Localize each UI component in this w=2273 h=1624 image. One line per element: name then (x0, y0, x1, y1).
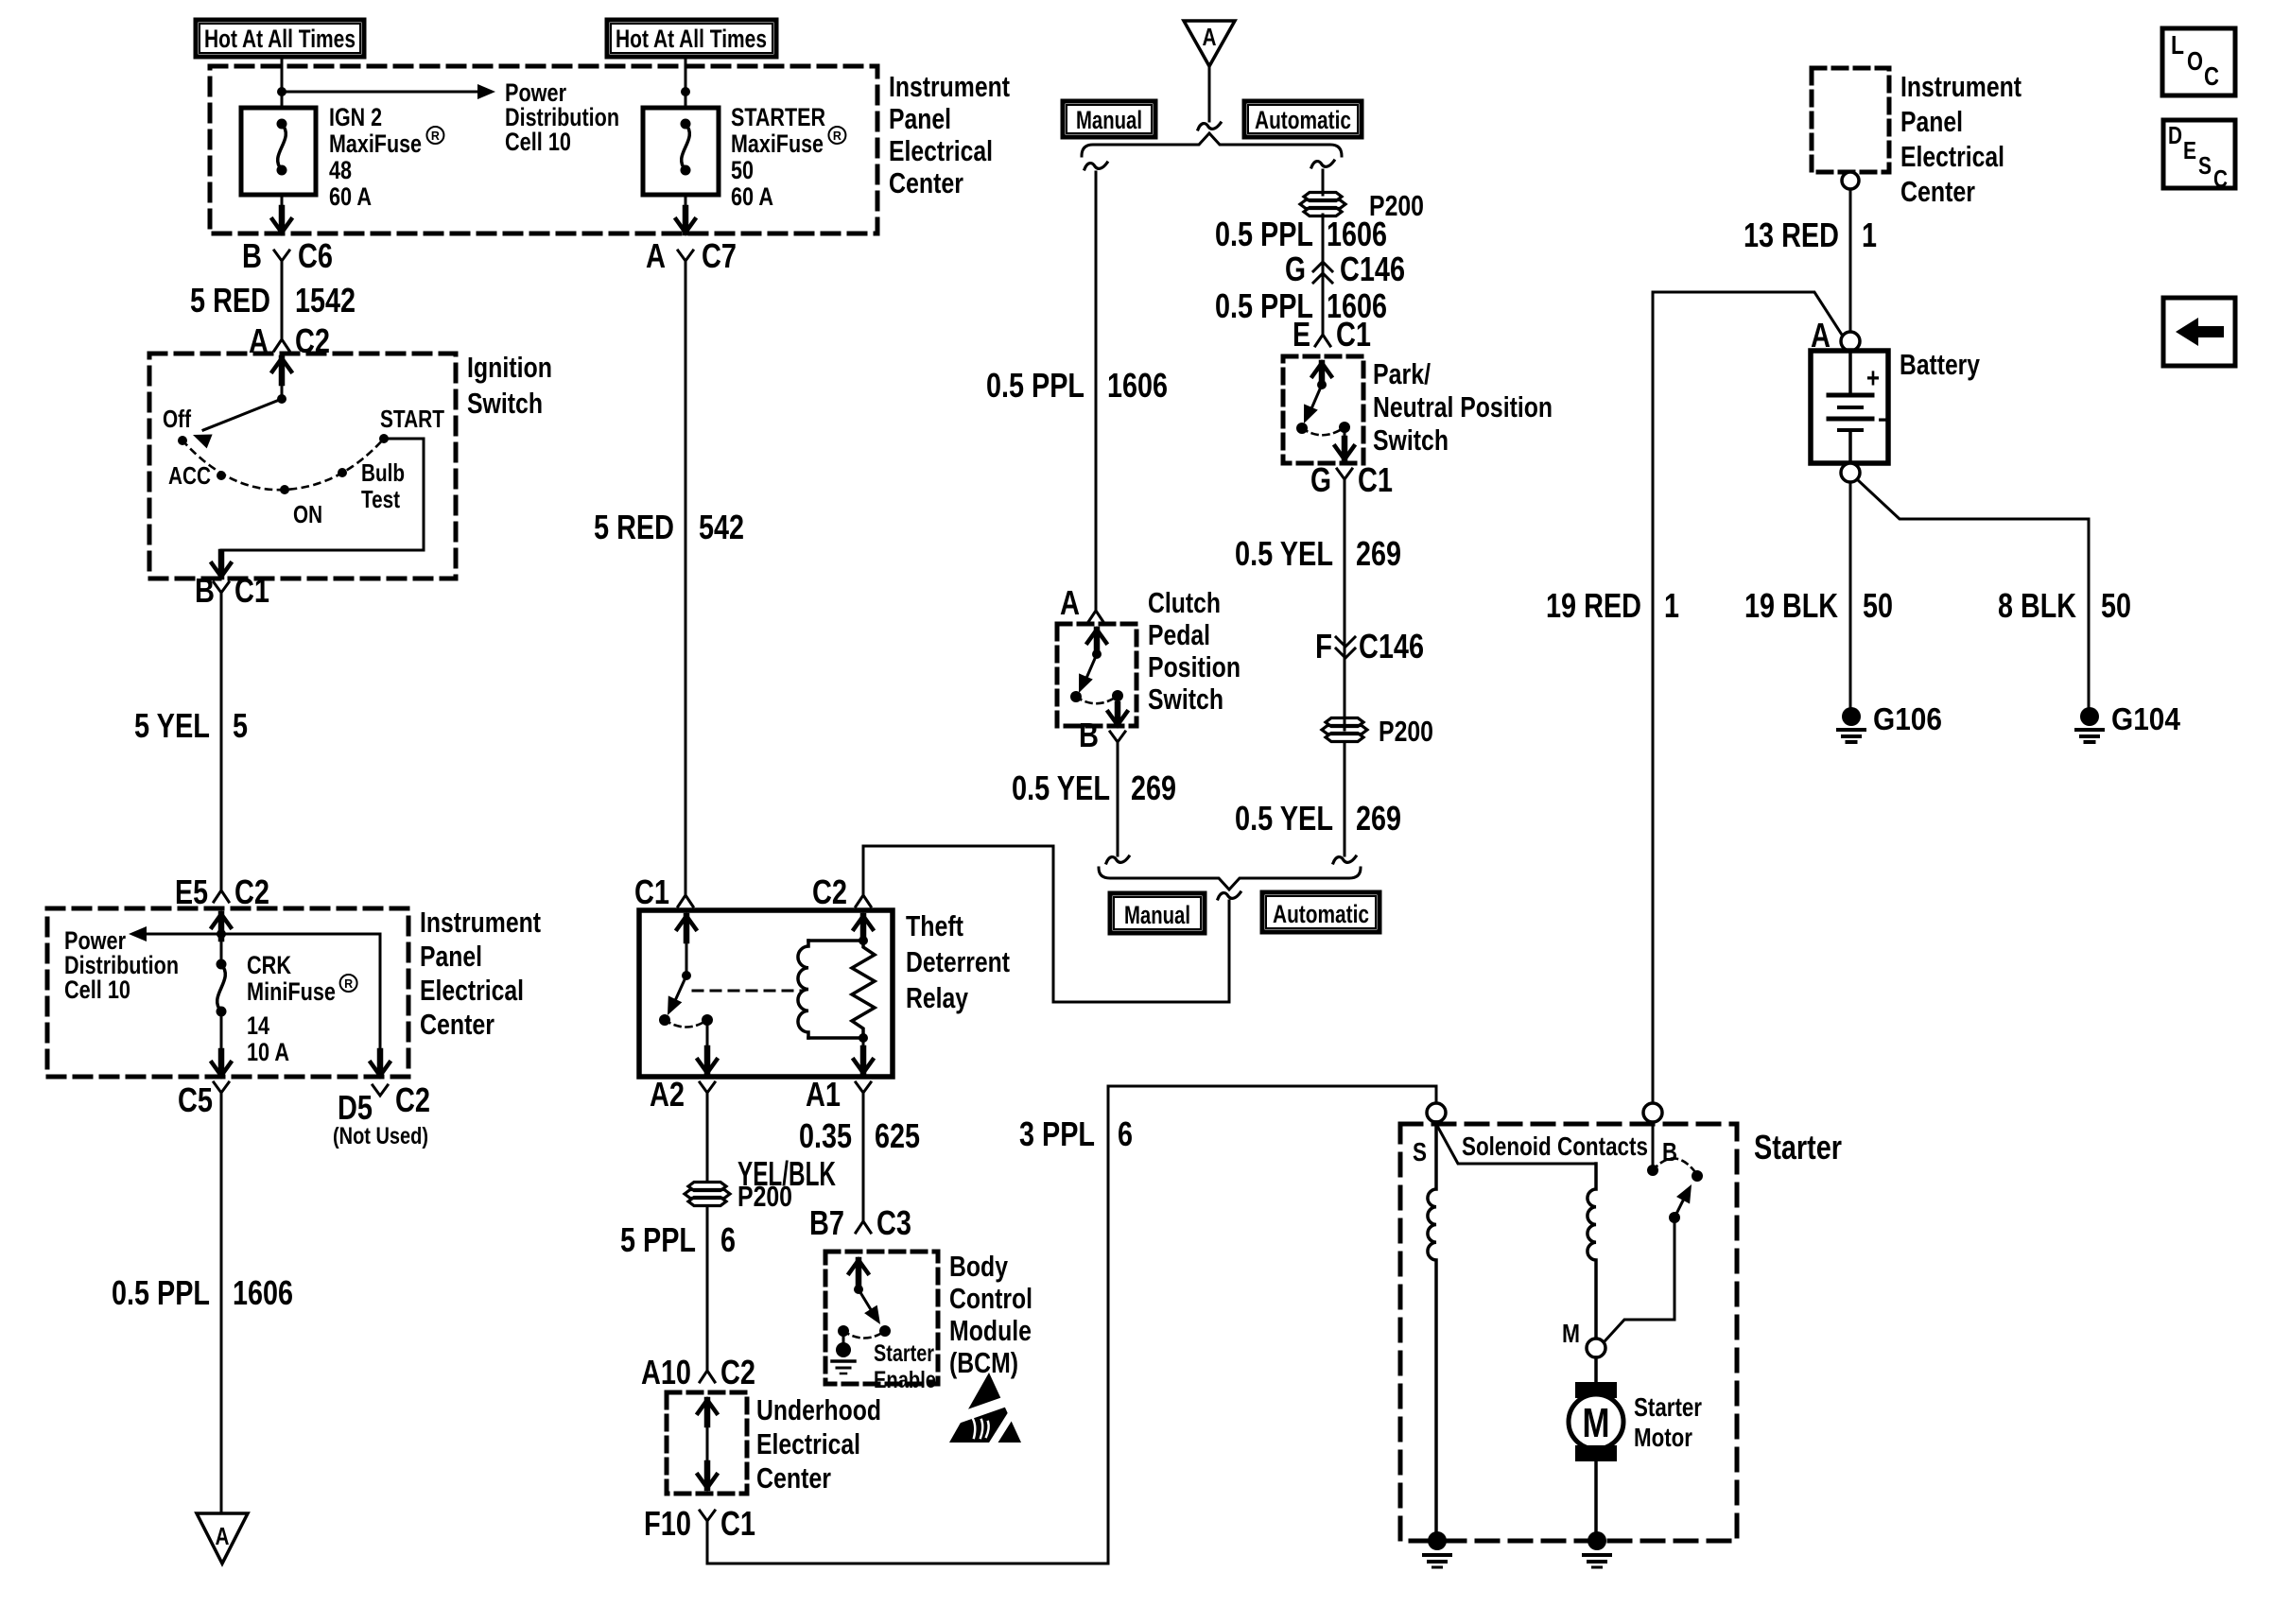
solenoid hold-in winding branch (1428, 1122, 1436, 1531)
wire 5 YEL 5 (220, 604, 223, 890)
svg-text:Park/: Park/ (1373, 357, 1431, 390)
svg-text:Underhood: Underhood (756, 1393, 881, 1426)
connector B / C1 (195, 571, 269, 610)
ESD sensitivity symbol (949, 1373, 1021, 1448)
clutch switch movable arm (1079, 654, 1097, 693)
junction node above CRK fuse (217, 929, 226, 939)
svg-text:A: A (216, 1522, 230, 1550)
inline connector G / C146 (1285, 250, 1405, 288)
label Underhood Electrical Center (756, 1393, 881, 1494)
svg-text:0.5 PPL: 0.5 PPL (986, 366, 1084, 405)
svg-text:5 PPL: 5 PPL (620, 1220, 696, 1259)
svg-text:Switch: Switch (1148, 682, 1223, 716)
relay actuation dashed link (693, 990, 802, 993)
svg-text:50: 50 (1863, 586, 1893, 625)
svg-text:3 PPL: 3 PPL (1019, 1114, 1095, 1153)
Instrument Panel Electrical Center dashed box (top) (210, 66, 877, 233)
svg-text:Test: Test (361, 485, 400, 513)
label box Manual (top) (1063, 101, 1155, 137)
svg-text:Hot At All Times: Hot At All Times (616, 25, 767, 53)
svg-text:R: R (344, 976, 354, 991)
svg-text:C5: C5 (178, 1080, 213, 1119)
svg-text:Switch: Switch (467, 387, 543, 420)
PNP switch movable arm (1304, 385, 1322, 423)
svg-text:STARTER: STARTER (731, 103, 825, 131)
wire A1 to BCM (862, 1104, 865, 1216)
svg-text:A: A (646, 236, 666, 275)
svg-text:B: B (242, 236, 262, 275)
Theft Deterrent Relay box (639, 910, 893, 1077)
svg-text:Module: Module (949, 1314, 1032, 1347)
svg-text:5 YEL: 5 YEL (134, 706, 210, 745)
svg-text:6: 6 (720, 1220, 736, 1259)
clutch contact right (1112, 690, 1123, 701)
svg-text:0.5 PPL: 0.5 PPL (112, 1273, 210, 1312)
wire arrow to Power Distribution Cell 10 (left) (129, 926, 380, 942)
connector F10 / C1 (644, 1504, 755, 1543)
svg-text:Manual: Manual (1076, 106, 1142, 134)
label Theft Deterrent Relay (906, 909, 1010, 1014)
label Bulb Test (361, 458, 405, 513)
wire-start hook automatic branch (top) (1311, 161, 1334, 167)
svg-text:C7: C7 (702, 236, 737, 275)
label Park/Neutral Position Switch (1373, 357, 1553, 457)
svg-text:Off: Off (163, 405, 191, 433)
svg-text:F: F (1315, 627, 1332, 665)
label 5 RED 1542 (190, 281, 356, 320)
svg-text:C146: C146 (1340, 250, 1405, 288)
ground starter motor (in starter) (1584, 1531, 1610, 1567)
svg-text:1: 1 (1862, 216, 1877, 254)
BCM contact left (838, 1325, 849, 1337)
starter contact right (1692, 1170, 1703, 1182)
starter contact at B (1647, 1165, 1658, 1176)
starter solenoid contact dashed arc (1653, 1158, 1695, 1172)
svg-text:48: 48 (329, 156, 352, 184)
wire 5 RED 1542 (281, 272, 284, 333)
svg-text:Center: Center (756, 1461, 831, 1494)
wire-end hook automatic branch (bottom) (1333, 856, 1356, 863)
inline connector P200 (automatic branch lower) (1322, 715, 1433, 748)
wire 5 RED 542 (685, 272, 687, 895)
connector C2 (relay) (812, 872, 871, 911)
wire 0.5 YEL 269 (PNP to C146) (1344, 491, 1346, 730)
connector E5 / C2 (175, 872, 269, 911)
svg-text:ON: ON (293, 500, 322, 528)
Underhood Electrical Center dashed box (667, 1392, 747, 1494)
label Instrument Panel Electrical Center (top) (889, 70, 1010, 199)
svg-text:5: 5 (233, 706, 248, 745)
PNP output wire with arrow (1335, 427, 1354, 459)
svg-text:Clutch: Clutch (1148, 586, 1221, 619)
svg-text:C1: C1 (1336, 315, 1371, 354)
svg-text:5 RED: 5 RED (594, 508, 674, 546)
svg-text:O: O (2187, 46, 2203, 76)
svg-text:C1: C1 (1358, 460, 1393, 499)
wire contact arm to M terminal (1605, 1218, 1674, 1341)
relay resistor (852, 941, 875, 1038)
label 19 BLK 50 (1744, 586, 1893, 625)
wire 19 RED 1 from battery to starter B (1653, 292, 1842, 1103)
svg-text:5 RED: 5 RED (190, 281, 270, 320)
label box Automatic (top) (1244, 101, 1362, 137)
label 0.5 PPL 1606 (manual branch) (986, 366, 1168, 405)
label 19 RED 1 (1546, 586, 1679, 625)
ignition switch contact ACC (217, 471, 226, 480)
label Body Control Module (BCM) (949, 1250, 1032, 1379)
svg-text:Electrical: Electrical (756, 1427, 860, 1460)
ground G106 (1838, 701, 1942, 742)
svg-text:Bulb: Bulb (361, 458, 405, 487)
battery terminal A circle (1841, 332, 1860, 351)
svg-text:Center: Center (1900, 175, 1975, 208)
wire 0.5 PPL 1606 (left column) (220, 1104, 223, 1513)
svg-text:C6: C6 (298, 236, 333, 275)
wire 13 RED 1 (1849, 189, 1852, 332)
svg-text:B: B (195, 571, 215, 610)
PNP contact right (1339, 422, 1350, 433)
svg-text:Pedal: Pedal (1148, 618, 1210, 651)
Starter dashed box (1400, 1124, 1737, 1541)
svg-text:E: E (2183, 136, 2196, 164)
battery (1811, 351, 1891, 463)
wire 5 PPL 6 (706, 1206, 709, 1361)
svg-text:C146: C146 (1359, 627, 1424, 665)
svg-text:Automatic: Automatic (1255, 106, 1351, 134)
svg-text:Instrument: Instrument (1900, 70, 2021, 103)
svg-text:Cell 10: Cell 10 (505, 128, 571, 156)
BCM starter enable arm (859, 1289, 880, 1324)
off-page triangle A (bottom left) (197, 1513, 248, 1564)
svg-text:Position: Position (1148, 650, 1241, 683)
svg-text:Control: Control (949, 1282, 1032, 1315)
svg-text:F10: F10 (644, 1504, 691, 1543)
svg-text:60 A: 60 A (329, 182, 372, 211)
svg-text:Electrical: Electrical (889, 134, 993, 167)
label Starter Motor (1634, 1392, 1702, 1452)
svg-text:Cell 10: Cell 10 (64, 976, 130, 1004)
wire triangle A down (1208, 66, 1211, 121)
svg-text:M: M (1562, 1319, 1580, 1348)
svg-text:C1: C1 (634, 872, 669, 911)
svg-text:B7: B7 (809, 1203, 844, 1242)
BCM internal ground (832, 1331, 855, 1373)
junction node on IGN2 feed (277, 87, 286, 96)
wire-end hook clutch branch (bottom) (1106, 856, 1129, 863)
svg-text:B: B (1662, 1137, 1677, 1166)
relay switch contact left (659, 1014, 670, 1026)
svg-text:6: 6 (1118, 1114, 1133, 1153)
inline connector P200 (automatic branch top) (1300, 189, 1424, 222)
wire 3 PPL 6 to starter S terminal (707, 1086, 1436, 1564)
inline connector P200 (A2 wire) (685, 1180, 792, 1213)
terminal circle below IPEC (right) (1842, 172, 1859, 189)
label Starter Enable (874, 1340, 936, 1393)
svg-text:CRK: CRK (247, 951, 291, 979)
clutch dashed arc (1076, 696, 1118, 703)
svg-text:C2: C2 (812, 872, 847, 911)
svg-text:10 A: 10 A (247, 1038, 289, 1066)
wire CRK fuse to C5 with arrow (212, 1011, 231, 1076)
connector A / C7 (646, 236, 737, 275)
connector B7 / C3 (809, 1203, 911, 1242)
svg-text:M: M (1583, 1400, 1610, 1446)
ignition switch contact START (379, 434, 389, 443)
connector C1 (relay) (634, 872, 693, 911)
svg-text:Instrument: Instrument (420, 906, 541, 939)
starter terminal B circle (1643, 1103, 1662, 1122)
PNP dashed arc (1302, 427, 1345, 435)
wire into CRK fuse with up arrow (212, 914, 231, 964)
svg-text:A: A (1203, 23, 1217, 51)
svg-text:C3: C3 (876, 1203, 911, 1242)
svg-text:Deterrent: Deterrent (906, 945, 1010, 978)
wire 8 BLK 50 to G104 (1857, 479, 2089, 707)
svg-text:269: 269 (1131, 769, 1176, 807)
svg-text:1606: 1606 (1107, 366, 1168, 405)
label 0.5 PPL 1606 (automatic lower) (1215, 286, 1387, 325)
relay coil node bottom (859, 1033, 868, 1043)
label box Automatic (bottom) (1262, 892, 1379, 932)
svg-text:G106: G106 (1873, 701, 1942, 736)
LOC reference box (2162, 28, 2235, 95)
svg-text:MiniFuse: MiniFuse (247, 977, 336, 1006)
label Power Distribution Cell 10 (top) (505, 78, 619, 156)
label Ignition Switch (467, 351, 552, 420)
svg-text:E5: E5 (175, 872, 208, 911)
connector A1 (806, 1075, 871, 1114)
svg-text:Manual: Manual (1124, 901, 1190, 929)
wire 0.5 YEL 269 (clutch) (1117, 753, 1119, 855)
starter terminal S circle (1427, 1103, 1446, 1122)
starter motor (1569, 1357, 1623, 1531)
svg-text:0.5 PPL: 0.5 PPL (1215, 215, 1313, 253)
svg-text:8 BLK: 8 BLK (1998, 586, 2076, 625)
Ignition Switch dashed box (149, 354, 456, 579)
clutch branch connector B (1079, 716, 1125, 754)
wire through Underhood Electrical Center (698, 1400, 717, 1488)
wire manual branch (0.5 PPL 1606) down to clutch switch (1095, 172, 1098, 605)
Body Control Module dashed box (825, 1252, 938, 1384)
svg-text:Theft: Theft (906, 909, 963, 942)
svg-text:50: 50 (731, 156, 754, 184)
svg-text:Neutral Position: Neutral Position (1373, 390, 1553, 423)
ignition switch contact ON (280, 485, 289, 494)
svg-text:A10: A10 (641, 1353, 691, 1391)
wire arrow to Power Distribution Cell 10 (282, 84, 495, 99)
svg-text:YEL/BLK: YEL/BLK (737, 1154, 836, 1193)
svg-text:C: C (2204, 61, 2219, 91)
svg-text:Relay: Relay (906, 981, 969, 1014)
Instrument Panel Electrical Center dashed box (right) (1812, 68, 1889, 172)
svg-text:0.35: 0.35 (799, 1116, 852, 1155)
connector A2 (650, 1075, 715, 1114)
wire from START contact to B/C1 (212, 439, 424, 577)
connector B / C6 (242, 236, 333, 275)
svg-text:542: 542 (699, 508, 744, 546)
label 0.5 YEL 269 (clutch) (1012, 769, 1176, 807)
back-arrow box (2163, 298, 2235, 366)
svg-text:+: + (1866, 363, 1880, 394)
Clutch Pedal Position Switch dashed box (1057, 624, 1136, 726)
svg-text:D5: D5 (338, 1088, 373, 1127)
solenoid pull-in winding branch (1436, 1124, 1596, 1339)
svg-text:Motor: Motor (1634, 1423, 1692, 1452)
wire fuse IGN2 output with arrow (272, 195, 291, 233)
top alternatives brace (1082, 133, 1342, 156)
svg-text:MaxiFuse: MaxiFuse (329, 130, 422, 158)
PNP switch feed arrow and pivot (1312, 363, 1331, 389)
relay switch feed arrow and pivot (677, 916, 696, 980)
ignition switch dashed travel arc (182, 439, 384, 490)
svg-text:13 RED: 13 RED (1744, 216, 1839, 254)
svg-text:625: 625 (875, 1116, 920, 1155)
relay switch dashed arc (665, 1020, 707, 1028)
connector G / C1 (PNP out) (1310, 460, 1393, 499)
ground solenoid (in starter) (1424, 1531, 1450, 1567)
ignition switch movable arm to Off (193, 399, 282, 448)
starter terminal M circle (1587, 1339, 1605, 1357)
connector A / C2 (ignition switch) (249, 321, 330, 360)
svg-text:IGN 2: IGN 2 (329, 103, 382, 131)
svg-text:C1: C1 (234, 571, 269, 610)
svg-text:G104: G104 (2111, 701, 2181, 736)
svg-text:R: R (833, 129, 842, 143)
wire relay C2 to Manual/Automatic net (863, 846, 1229, 1002)
svg-text:Body: Body (949, 1250, 1009, 1283)
svg-text:Starter: Starter (1634, 1392, 1702, 1422)
svg-text:Instrument: Instrument (889, 70, 1010, 103)
BCM dashed arc (843, 1331, 885, 1339)
ground G104 (2076, 701, 2181, 742)
wire D5 branch (not used) (371, 934, 390, 1076)
relay switch movable arm (668, 976, 686, 1015)
label 3 PPL 6 (1019, 1114, 1133, 1153)
clutch switch feed arrow and pivot (1087, 630, 1106, 659)
relay C2 internal wire with arrow (854, 916, 873, 941)
svg-text:Panel: Panel (889, 102, 951, 135)
clutch branch connector A (1060, 583, 1103, 622)
clutch output wire with arrow (1108, 696, 1127, 725)
svg-text:1606: 1606 (1327, 215, 1387, 253)
wire automatic branch upper (1322, 170, 1325, 195)
svg-text:S: S (1413, 1137, 1427, 1166)
relay A2 internal wire with arrow (698, 1020, 717, 1073)
BCM contact right (879, 1325, 891, 1337)
svg-text:A1: A1 (806, 1075, 841, 1114)
svg-text:Battery: Battery (1900, 348, 1981, 381)
svg-text:Center: Center (889, 166, 963, 199)
label Instrument Panel Electrical Center (right) (1900, 70, 2021, 208)
label 0.5 YEL 269 (upper) (1235, 534, 1401, 573)
label Instrument Panel Electrical Center (lower left) (420, 906, 541, 1041)
Instrument Panel Electrical Center dashed box (lower left) (47, 908, 408, 1077)
svg-text:60 A: 60 A (731, 182, 773, 211)
wire 0.5 PPL 1606 (automatic upper) (1322, 215, 1325, 327)
svg-text:Enable: Enable (874, 1367, 936, 1393)
ignition switch contact Bulb Test (338, 468, 347, 477)
connector D5 / C2 (Not Used) (333, 1080, 430, 1149)
relay coil node top (859, 936, 868, 945)
label 13 RED 1 (1744, 216, 1877, 254)
wire fuse STARTER output with arrow (676, 195, 695, 233)
svg-text:Switch: Switch (1373, 423, 1449, 457)
label 5 RED 542 (594, 508, 744, 546)
clutch contact left (1070, 691, 1082, 702)
svg-text:C2: C2 (395, 1080, 430, 1119)
svg-text:C2: C2 (720, 1353, 755, 1391)
svg-text:19 BLK: 19 BLK (1744, 586, 1838, 625)
svg-text:E: E (1293, 315, 1310, 354)
svg-text:C1: C1 (720, 1504, 755, 1543)
ignition switch contact Off (178, 436, 187, 445)
svg-text:Starter: Starter (874, 1340, 934, 1367)
svg-text:Ignition: Ignition (467, 351, 552, 384)
svg-text:1542: 1542 (295, 281, 356, 320)
DESC reference box (2163, 120, 2235, 193)
label 8 BLK 50 (1998, 586, 2131, 625)
svg-text:(Not Used): (Not Used) (333, 1123, 428, 1149)
label 0.5 YEL 269 (automatic lower) (1235, 799, 1401, 838)
svg-text:S: S (2198, 151, 2212, 180)
svg-text:Automatic: Automatic (1273, 900, 1369, 928)
label IGN 2 MaxiFuse 48 60 A (329, 103, 443, 211)
svg-text:D: D (2168, 121, 2182, 149)
svg-text:Panel: Panel (420, 940, 482, 973)
svg-text:269: 269 (1356, 534, 1401, 573)
label 0.5 PPL 1606 (automatic upper) (1215, 215, 1387, 253)
svg-text:Panel: Panel (1900, 105, 1963, 138)
svg-text:Electrical: Electrical (420, 974, 524, 1007)
svg-text:−: − (1878, 405, 1891, 436)
svg-text:P200: P200 (1379, 715, 1433, 748)
inline connector F / C146 (1315, 627, 1424, 665)
bottom alternatives brace (1099, 868, 1361, 890)
svg-text:269: 269 (1356, 799, 1401, 838)
svg-text:14: 14 (247, 1011, 269, 1040)
svg-text:L: L (2171, 30, 2184, 60)
svg-text:A: A (1060, 583, 1080, 622)
relay A1 internal wire with arrow (854, 1038, 873, 1073)
label 0.5 PPL 1606 (left column) (112, 1273, 293, 1312)
svg-text:0.5 YEL: 0.5 YEL (1012, 769, 1110, 807)
label box "Hot At All Times" (right) (607, 20, 776, 57)
svg-text:ACC: ACC (168, 461, 211, 490)
wire from Hot box 1 into IPEC (281, 57, 284, 108)
svg-text:Electrical: Electrical (1900, 140, 2004, 173)
ignition switch feed arrow and pivot (272, 358, 291, 404)
svg-text:0.5 YEL: 0.5 YEL (1235, 799, 1333, 838)
wire 19 BLK 50 to G106 (1849, 482, 1852, 706)
svg-text:C2: C2 (234, 872, 269, 911)
junction node on STARTER feed (681, 87, 690, 96)
connector A10 / C2 (641, 1353, 755, 1391)
svg-text:1606: 1606 (233, 1273, 293, 1312)
label box "Hot At All Times" (left) (196, 20, 364, 57)
relay coil (798, 941, 863, 1038)
starter contact arm with arrow (1669, 1184, 1692, 1223)
Park/Neutral Position Switch dashed box (1283, 356, 1363, 463)
svg-text:Hot At All Times: Hot At All Times (204, 25, 356, 53)
label 0.35 YEL/BLK 625 (737, 1116, 920, 1193)
BCM starter enable feed arrow and pivot (849, 1260, 868, 1294)
label Clutch Pedal Position Switch (1148, 586, 1241, 716)
connector C5 (178, 1080, 229, 1119)
wire A2 to P200 (706, 1104, 709, 1182)
wire from Hot box 2 (685, 57, 687, 108)
PNP contact left (1296, 423, 1308, 434)
svg-text:50: 50 (2101, 586, 2131, 625)
